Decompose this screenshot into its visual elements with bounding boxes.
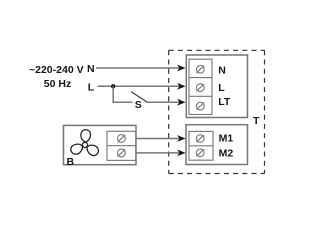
svg-text:M1: M1 xyxy=(219,133,234,145)
terminal strip lower xyxy=(189,131,213,160)
svg-text:L: L xyxy=(88,82,95,94)
fan/motor box B xyxy=(64,125,137,164)
svg-text:L: L xyxy=(218,82,225,94)
strip divider xyxy=(189,145,213,147)
arrow into terminal LT xyxy=(177,99,186,106)
arrow into terminal N xyxy=(177,65,186,72)
wire L xyxy=(98,85,181,87)
svg-text:N: N xyxy=(218,64,226,76)
arrow into terminal L xyxy=(177,83,186,90)
junction dot on L xyxy=(111,84,115,88)
arrow into terminal M1 xyxy=(177,135,186,142)
strip divider 2 xyxy=(189,95,212,97)
svg-text:LT: LT xyxy=(218,96,231,108)
terminal block lower: outer box xyxy=(186,125,248,165)
svg-text:T: T xyxy=(253,115,260,127)
screw terminal M1 xyxy=(196,135,204,143)
svg-text:50 Hz: 50 Hz xyxy=(44,78,71,90)
fan impeller symbol xyxy=(68,128,102,158)
fan terminal strip xyxy=(107,131,136,160)
wire from switch to LT xyxy=(147,101,180,103)
dashed enclosure T xyxy=(169,50,265,173)
wire N xyxy=(96,67,180,69)
screw terminal M2 xyxy=(196,149,204,157)
value label ~220-240 V 50 Hz xyxy=(29,64,84,90)
wire M2 xyxy=(136,152,180,154)
screw terminal L xyxy=(196,84,204,92)
strip divider 1 xyxy=(189,77,212,79)
wire from junction down to switch xyxy=(113,86,132,102)
svg-text:B: B xyxy=(67,156,75,168)
screw terminal LT xyxy=(196,102,204,110)
svg-text:S: S xyxy=(135,99,142,111)
svg-text:M2: M2 xyxy=(219,147,234,159)
fan screw terminal 2 xyxy=(118,149,126,157)
arrow into terminal M2 xyxy=(177,150,186,157)
terminal block upper: outer box xyxy=(186,55,247,118)
fan strip divider xyxy=(107,145,136,147)
screw terminal N xyxy=(196,65,204,73)
switch S lever xyxy=(131,92,147,103)
fan screw terminal 1 xyxy=(118,135,126,143)
svg-text:~220-240 V: ~220-240 V xyxy=(29,64,84,76)
terminal strip upper xyxy=(189,59,212,114)
svg-text:N: N xyxy=(87,63,95,75)
wire M1 xyxy=(136,138,180,140)
